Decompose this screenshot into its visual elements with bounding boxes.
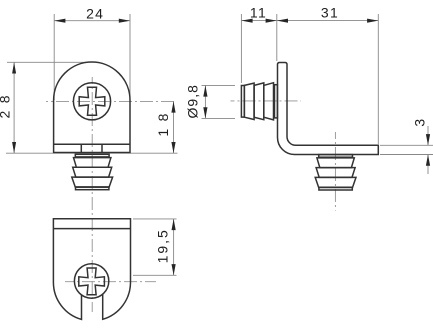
svg-text:19,5: 19,5 — [155, 228, 171, 263]
svg-text:24: 24 — [86, 6, 104, 22]
svg-text:28: 28 — [0, 88, 12, 119]
svg-text:31: 31 — [321, 5, 339, 21]
svg-text:3: 3 — [412, 117, 428, 127]
svg-text:Ø9,8: Ø9,8 — [185, 84, 201, 118]
svg-text:11: 11 — [250, 5, 267, 21]
svg-text:18: 18 — [155, 106, 171, 137]
